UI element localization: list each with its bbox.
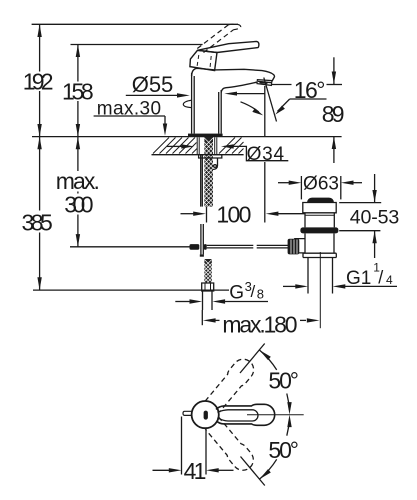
supply hose thread (knurled) xyxy=(204,259,211,283)
svg-text:89: 89 xyxy=(322,101,345,127)
handle neck xyxy=(190,50,217,70)
svg-text:G1: G1 xyxy=(346,268,371,289)
counter hatch right xyxy=(219,138,244,154)
faucet body column xyxy=(191,73,193,134)
svg-text:40-53: 40-53 xyxy=(350,207,400,229)
pop-up rod upper (in front of stud) xyxy=(200,155,202,207)
faucet spout deck outline xyxy=(192,68,275,81)
svg-text:50°: 50° xyxy=(268,368,299,394)
dimension G3/8 arrows xyxy=(175,301,190,303)
dimension 158 line xyxy=(77,45,79,137)
dimension 41 xyxy=(181,417,183,475)
dashed lever up 50 xyxy=(204,355,258,414)
front tab xyxy=(183,411,192,415)
counter hatch left xyxy=(153,138,197,154)
svg-text:8: 8 xyxy=(257,287,264,302)
dimension 100 xyxy=(206,207,208,223)
aerator xyxy=(257,80,272,86)
shank tube walls in counter hole xyxy=(197,137,217,154)
lever inner detail xyxy=(217,410,258,421)
radial line upper xyxy=(240,344,265,374)
pop-up rod lower xyxy=(200,224,202,254)
ref line 385 bottom xyxy=(33,289,229,291)
svg-text:158: 158 xyxy=(62,79,94,105)
axis line xyxy=(247,414,304,416)
svg-text:/: / xyxy=(251,282,256,301)
ref line top (192 upper reference) xyxy=(32,23,238,25)
hose tube xyxy=(202,291,204,310)
center slot xyxy=(204,411,208,420)
hose nut xyxy=(202,283,214,291)
horizontal rod right xyxy=(207,244,254,246)
knurled knob xyxy=(288,239,300,255)
pop-up knob tab on body xyxy=(183,100,191,107)
side port box xyxy=(295,239,305,253)
dimension Ø34 xyxy=(167,145,182,147)
svg-text:385: 385 xyxy=(22,210,53,236)
svg-text:G: G xyxy=(229,283,244,304)
svg-text:41: 41 xyxy=(184,458,207,484)
dimension G1 1/4 xyxy=(283,285,296,287)
svg-text:/: / xyxy=(378,268,383,288)
dimension max300 line xyxy=(77,137,79,247)
svg-text:16°: 16° xyxy=(294,77,326,103)
drain body xyxy=(305,233,334,253)
dimension 192 line xyxy=(39,24,41,136)
Ø63 extension lines xyxy=(300,176,302,199)
counter top line xyxy=(32,136,342,138)
stream angle line xyxy=(264,78,277,122)
horizontal arrow at spout base xyxy=(234,93,265,95)
Ø63 arrows xyxy=(278,182,291,184)
lever outline top-view xyxy=(216,404,275,425)
dimension 40-53 xyxy=(374,174,376,202)
tailpipe xyxy=(307,258,309,294)
counter bottom line xyxy=(152,154,244,156)
radial line lower xyxy=(241,457,265,486)
lever handle solid xyxy=(198,41,259,52)
label max.30 leader xyxy=(94,115,165,117)
dashed lever down 50 xyxy=(204,416,258,475)
mounting washer under counter xyxy=(199,155,222,158)
drain flange xyxy=(303,203,336,213)
svg-text:Ø34: Ø34 xyxy=(247,144,285,165)
dimension 385 line xyxy=(39,137,41,290)
aerator vertical extension line xyxy=(264,86,266,136)
svg-text:300: 300 xyxy=(64,192,93,218)
svg-text:Ø63: Ø63 xyxy=(303,173,339,194)
svg-text:max.30: max.30 xyxy=(97,99,161,120)
svg-text:50°: 50° xyxy=(268,437,299,463)
lever handle raised dashed xyxy=(197,24,240,52)
rod clamp xyxy=(190,244,200,250)
dimension 89 xyxy=(333,57,335,84)
svg-text:max.180: max.180 xyxy=(222,312,297,338)
drain centerline xyxy=(319,252,321,328)
spout underside curve xyxy=(221,82,256,92)
white boxes behind texts that sit on dimension lines xyxy=(20,72,102,233)
dimension max.180 xyxy=(201,310,203,325)
faucet base flange xyxy=(188,134,223,137)
mounting shank: threaded stud (knurled) xyxy=(204,137,213,207)
svg-text:4: 4 xyxy=(386,273,393,287)
ref line 158 upper reference xyxy=(71,44,203,46)
body circle xyxy=(192,401,219,428)
angle arc lower xyxy=(287,420,290,436)
horizontal rod left xyxy=(70,246,190,248)
svg-text:100: 100 xyxy=(216,201,251,227)
coupling xyxy=(303,253,336,257)
drain cap dome xyxy=(307,198,334,203)
swivel arc arrow xyxy=(241,102,259,112)
svg-text:Ø55: Ø55 xyxy=(132,72,174,97)
drain gasket xyxy=(300,227,338,233)
16 deg annotation xyxy=(290,98,327,100)
rod guide bracket xyxy=(213,158,218,170)
angle arc upper xyxy=(259,350,276,370)
svg-text:max.: max. xyxy=(56,168,100,194)
drain neck xyxy=(305,213,334,228)
svg-text:192: 192 xyxy=(23,68,54,94)
cartridge hidden dashes xyxy=(197,55,211,70)
label Ø55 leader xyxy=(126,94,178,96)
